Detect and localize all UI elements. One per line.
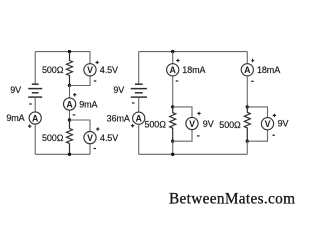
- svg-text:A: A: [66, 99, 73, 109]
- plus sign ammeter A3: [131, 124, 134, 127]
- svg-text:9V: 9V: [113, 85, 124, 95]
- svg-text:500Ω: 500Ω: [145, 120, 167, 130]
- plus sign voltmeter V1: [96, 61, 99, 64]
- wire: bottom rail right circuit: [139, 153, 248, 155]
- plus sign voltmeter V2: [96, 127, 99, 130]
- node: top rail branch 1 junction: [171, 50, 174, 53]
- wire: ammeter A4 to junction: [172, 76, 174, 107]
- wire: voltmeter V1 loop: [70, 52, 91, 86]
- ammeter A1: [29, 112, 41, 124]
- minus sign voltmeter V2: [94, 148, 97, 150]
- svg-text:18mA: 18mA: [182, 65, 205, 75]
- plus sign voltmeter V5: [273, 114, 276, 117]
- wire: voltmeter V2 loop: [70, 120, 91, 154]
- minus sign voltmeter V1: [94, 80, 97, 82]
- svg-text:4.5V: 4.5V: [100, 65, 118, 75]
- wire: branch 2 top to ammeter A5: [246, 52, 248, 64]
- ammeter A5: [241, 64, 253, 76]
- minus sign battery B1: [29, 103, 32, 105]
- plus sign ammeter A2: [73, 93, 76, 96]
- wire: left rail to battery B2: [138, 52, 140, 84]
- wire: battery B1 to ammeter A1: [34, 97, 36, 112]
- node: top junction R1: [68, 50, 71, 53]
- wire: branch 1 to bottom rail: [172, 141, 174, 154]
- svg-text:V: V: [265, 119, 271, 129]
- voltmeter V5: [261, 118, 273, 130]
- resistor R3 500ohm: [170, 107, 176, 141]
- wire: battery B2 to ammeter A3: [138, 97, 140, 112]
- wire: ammeter A1 to bottom rail: [34, 124, 36, 154]
- wire: bottom rail left circuit: [35, 153, 90, 155]
- wire: junction to ammeter A2: [69, 86, 71, 98]
- svg-text:BetweenMates.com: BetweenMates.com: [169, 191, 295, 208]
- node: junction below R3: [171, 140, 174, 143]
- svg-text:500Ω: 500Ω: [219, 120, 241, 130]
- plus sign ammeter A4: [176, 59, 179, 62]
- svg-text:9mA: 9mA: [6, 113, 24, 123]
- plus sign voltmeter V4: [197, 112, 200, 115]
- svg-text:V: V: [87, 133, 93, 143]
- minus sign voltmeter V5: [272, 134, 275, 136]
- resistor R1 500ohm: [67, 52, 73, 86]
- node: junction below R1: [68, 84, 71, 87]
- node: junction above R4: [246, 105, 249, 108]
- wire: voltmeter V4 loop: [173, 107, 192, 141]
- svg-text:A: A: [170, 65, 177, 75]
- svg-text:A: A: [32, 113, 39, 123]
- resistor R4 500ohm: [244, 107, 250, 141]
- battery B1 9V: [28, 84, 42, 97]
- wire: left rail upper (to battery): [34, 52, 36, 84]
- svg-text:9mA: 9mA: [79, 99, 97, 109]
- ammeter A3: [133, 112, 145, 124]
- svg-text:V: V: [87, 65, 93, 75]
- minus sign battery B2: [132, 102, 135, 104]
- plus sign ammeter A5: [252, 59, 255, 62]
- svg-text:4.5V: 4.5V: [100, 133, 118, 143]
- svg-text:A: A: [244, 65, 251, 75]
- ammeter A4: [167, 64, 179, 76]
- node: junction below R4: [246, 140, 249, 143]
- svg-text:500Ω: 500Ω: [42, 65, 64, 75]
- resistor R2 500ohm: [67, 120, 73, 154]
- svg-text:18mA: 18mA: [257, 65, 280, 75]
- voltmeter V4: [186, 117, 198, 129]
- wire: ammeter A3 to bottom rail: [138, 124, 140, 154]
- svg-text:500Ω: 500Ω: [42, 133, 64, 143]
- wire: top rail right circuit: [139, 51, 248, 53]
- svg-text:9V: 9V: [203, 119, 214, 129]
- battery B2 9V: [131, 84, 147, 97]
- node: junction below R2 on bottom rail: [68, 153, 71, 156]
- wire: branch 2 to bottom rail corner: [246, 141, 248, 154]
- wire: voltmeter V5 loop: [247, 107, 267, 141]
- minus sign ammeter A5: [251, 80, 254, 82]
- node: junction above R3: [171, 105, 174, 108]
- voltmeter V1: [84, 64, 96, 76]
- minus sign ammeter A4: [176, 80, 179, 82]
- node: bottom rail branch 1 junction: [171, 153, 174, 156]
- minus sign ammeter A2: [73, 114, 76, 116]
- wire: ammeter A5 to junction: [246, 76, 248, 107]
- svg-text:36mA: 36mA: [107, 114, 130, 124]
- node: junction above R2: [68, 118, 71, 121]
- svg-text:9V: 9V: [10, 85, 21, 95]
- svg-text:V: V: [189, 119, 195, 129]
- svg-text:A: A: [136, 114, 143, 124]
- ammeter A2: [64, 98, 76, 110]
- minus sign voltmeter V4: [197, 135, 200, 137]
- wire: ammeter A2 to junction: [69, 110, 71, 120]
- voltmeter V2: [84, 132, 96, 144]
- wire: top rail left circuit: [35, 51, 90, 53]
- plus sign ammeter A1: [28, 125, 31, 128]
- svg-text:9V: 9V: [278, 119, 289, 129]
- wire: branch 1 top to ammeter A4: [172, 52, 174, 64]
